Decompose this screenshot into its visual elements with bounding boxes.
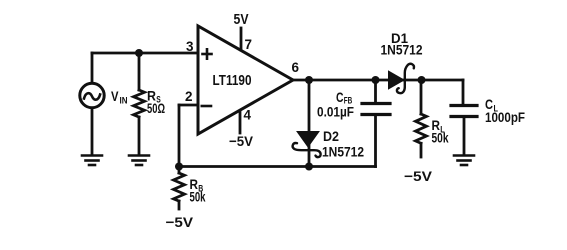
label -5V (RL) bbox=[404, 168, 433, 184]
diode D2 bbox=[308, 80, 311, 167]
wire RS to ground bbox=[138, 117, 141, 155]
svg-text:50Ω: 50Ω bbox=[147, 100, 165, 116]
source V1 bbox=[80, 83, 104, 107]
svg-text:3: 3 bbox=[186, 38, 194, 54]
svg-text:V: V bbox=[111, 88, 119, 104]
svg-text:0.01µF: 0.01µF bbox=[317, 104, 354, 120]
svg-text:IN: IN bbox=[120, 96, 128, 107]
pin 2 stub bbox=[179, 104, 198, 107]
pin 6 label bbox=[292, 59, 300, 75]
ground (CL) bbox=[454, 156, 474, 166]
svg-text:6: 6 bbox=[292, 59, 300, 75]
label RS 50Ω bbox=[147, 88, 165, 117]
svg-text:LT1190: LT1190 bbox=[213, 73, 252, 89]
capacitor CFB bbox=[374, 80, 377, 102]
pin 4 bbox=[239, 111, 242, 133]
minus symbol bbox=[202, 105, 211, 108]
label CFB bbox=[336, 89, 352, 107]
wire pin2 down to feedback node bbox=[178, 105, 181, 167]
label 1N5712 (D1) bbox=[381, 42, 423, 58]
label 1N5712 (D2) bbox=[322, 144, 364, 160]
svg-text:−5V: −5V bbox=[404, 168, 433, 184]
resistor RL bbox=[420, 80, 423, 114]
label 5V bbox=[234, 12, 249, 28]
node junction on top wire bbox=[135, 49, 143, 57]
label RB 50k bbox=[190, 176, 206, 205]
svg-text:5V: 5V bbox=[234, 12, 249, 28]
svg-text:1N5712: 1N5712 bbox=[322, 144, 364, 160]
svg-text:4: 4 bbox=[244, 107, 252, 123]
pin 3 label bbox=[186, 38, 194, 54]
label D2 bbox=[323, 128, 339, 144]
plus symbol bbox=[203, 49, 212, 58]
junction node D2/feedback bbox=[305, 163, 313, 171]
capacitor CL bbox=[462, 80, 465, 104]
wire top from source to pin 3 bbox=[92, 52, 197, 55]
diode D1 bbox=[389, 72, 403, 88]
svg-text:D2: D2 bbox=[323, 128, 339, 144]
label RL 50k bbox=[432, 117, 449, 146]
svg-text:2: 2 bbox=[185, 88, 193, 104]
label CL bbox=[485, 96, 525, 125]
svg-text:1N5712: 1N5712 bbox=[381, 42, 423, 58]
label 0.01uF bbox=[317, 104, 354, 120]
wire source stem top bbox=[91, 53, 94, 83]
label D1 bbox=[391, 30, 408, 46]
wire source stem bottom bbox=[91, 108, 94, 155]
junction node D1/RL bbox=[418, 76, 426, 84]
pin 2 label bbox=[185, 88, 193, 104]
label VIN bbox=[111, 88, 128, 107]
ground (RS) bbox=[129, 156, 149, 166]
svg-text:−5V: −5V bbox=[166, 214, 194, 230]
resistor RB bbox=[178, 167, 181, 174]
label -5V (pin 4) bbox=[229, 133, 254, 149]
svg-text:−5V: −5V bbox=[229, 133, 254, 149]
op-amp U1 LT1190 bbox=[198, 26, 293, 134]
wire feedback bottom bbox=[179, 165, 376, 168]
svg-text:50k: 50k bbox=[190, 189, 206, 205]
ground (source) bbox=[82, 156, 102, 166]
junction node output/D2 bbox=[305, 76, 313, 84]
pin 7 bbox=[240, 28, 243, 50]
resistor RS bbox=[134, 90, 145, 117]
wire output bbox=[293, 79, 463, 82]
svg-text:7: 7 bbox=[245, 36, 253, 52]
svg-text:50k: 50k bbox=[432, 130, 449, 146]
junction node RB/pin2 bbox=[175, 163, 183, 171]
junction node CFB top bbox=[372, 76, 380, 84]
label -5V (RB) bbox=[166, 214, 194, 230]
svg-text:1000pF: 1000pF bbox=[485, 109, 525, 125]
wire junction to RS bbox=[138, 53, 141, 90]
